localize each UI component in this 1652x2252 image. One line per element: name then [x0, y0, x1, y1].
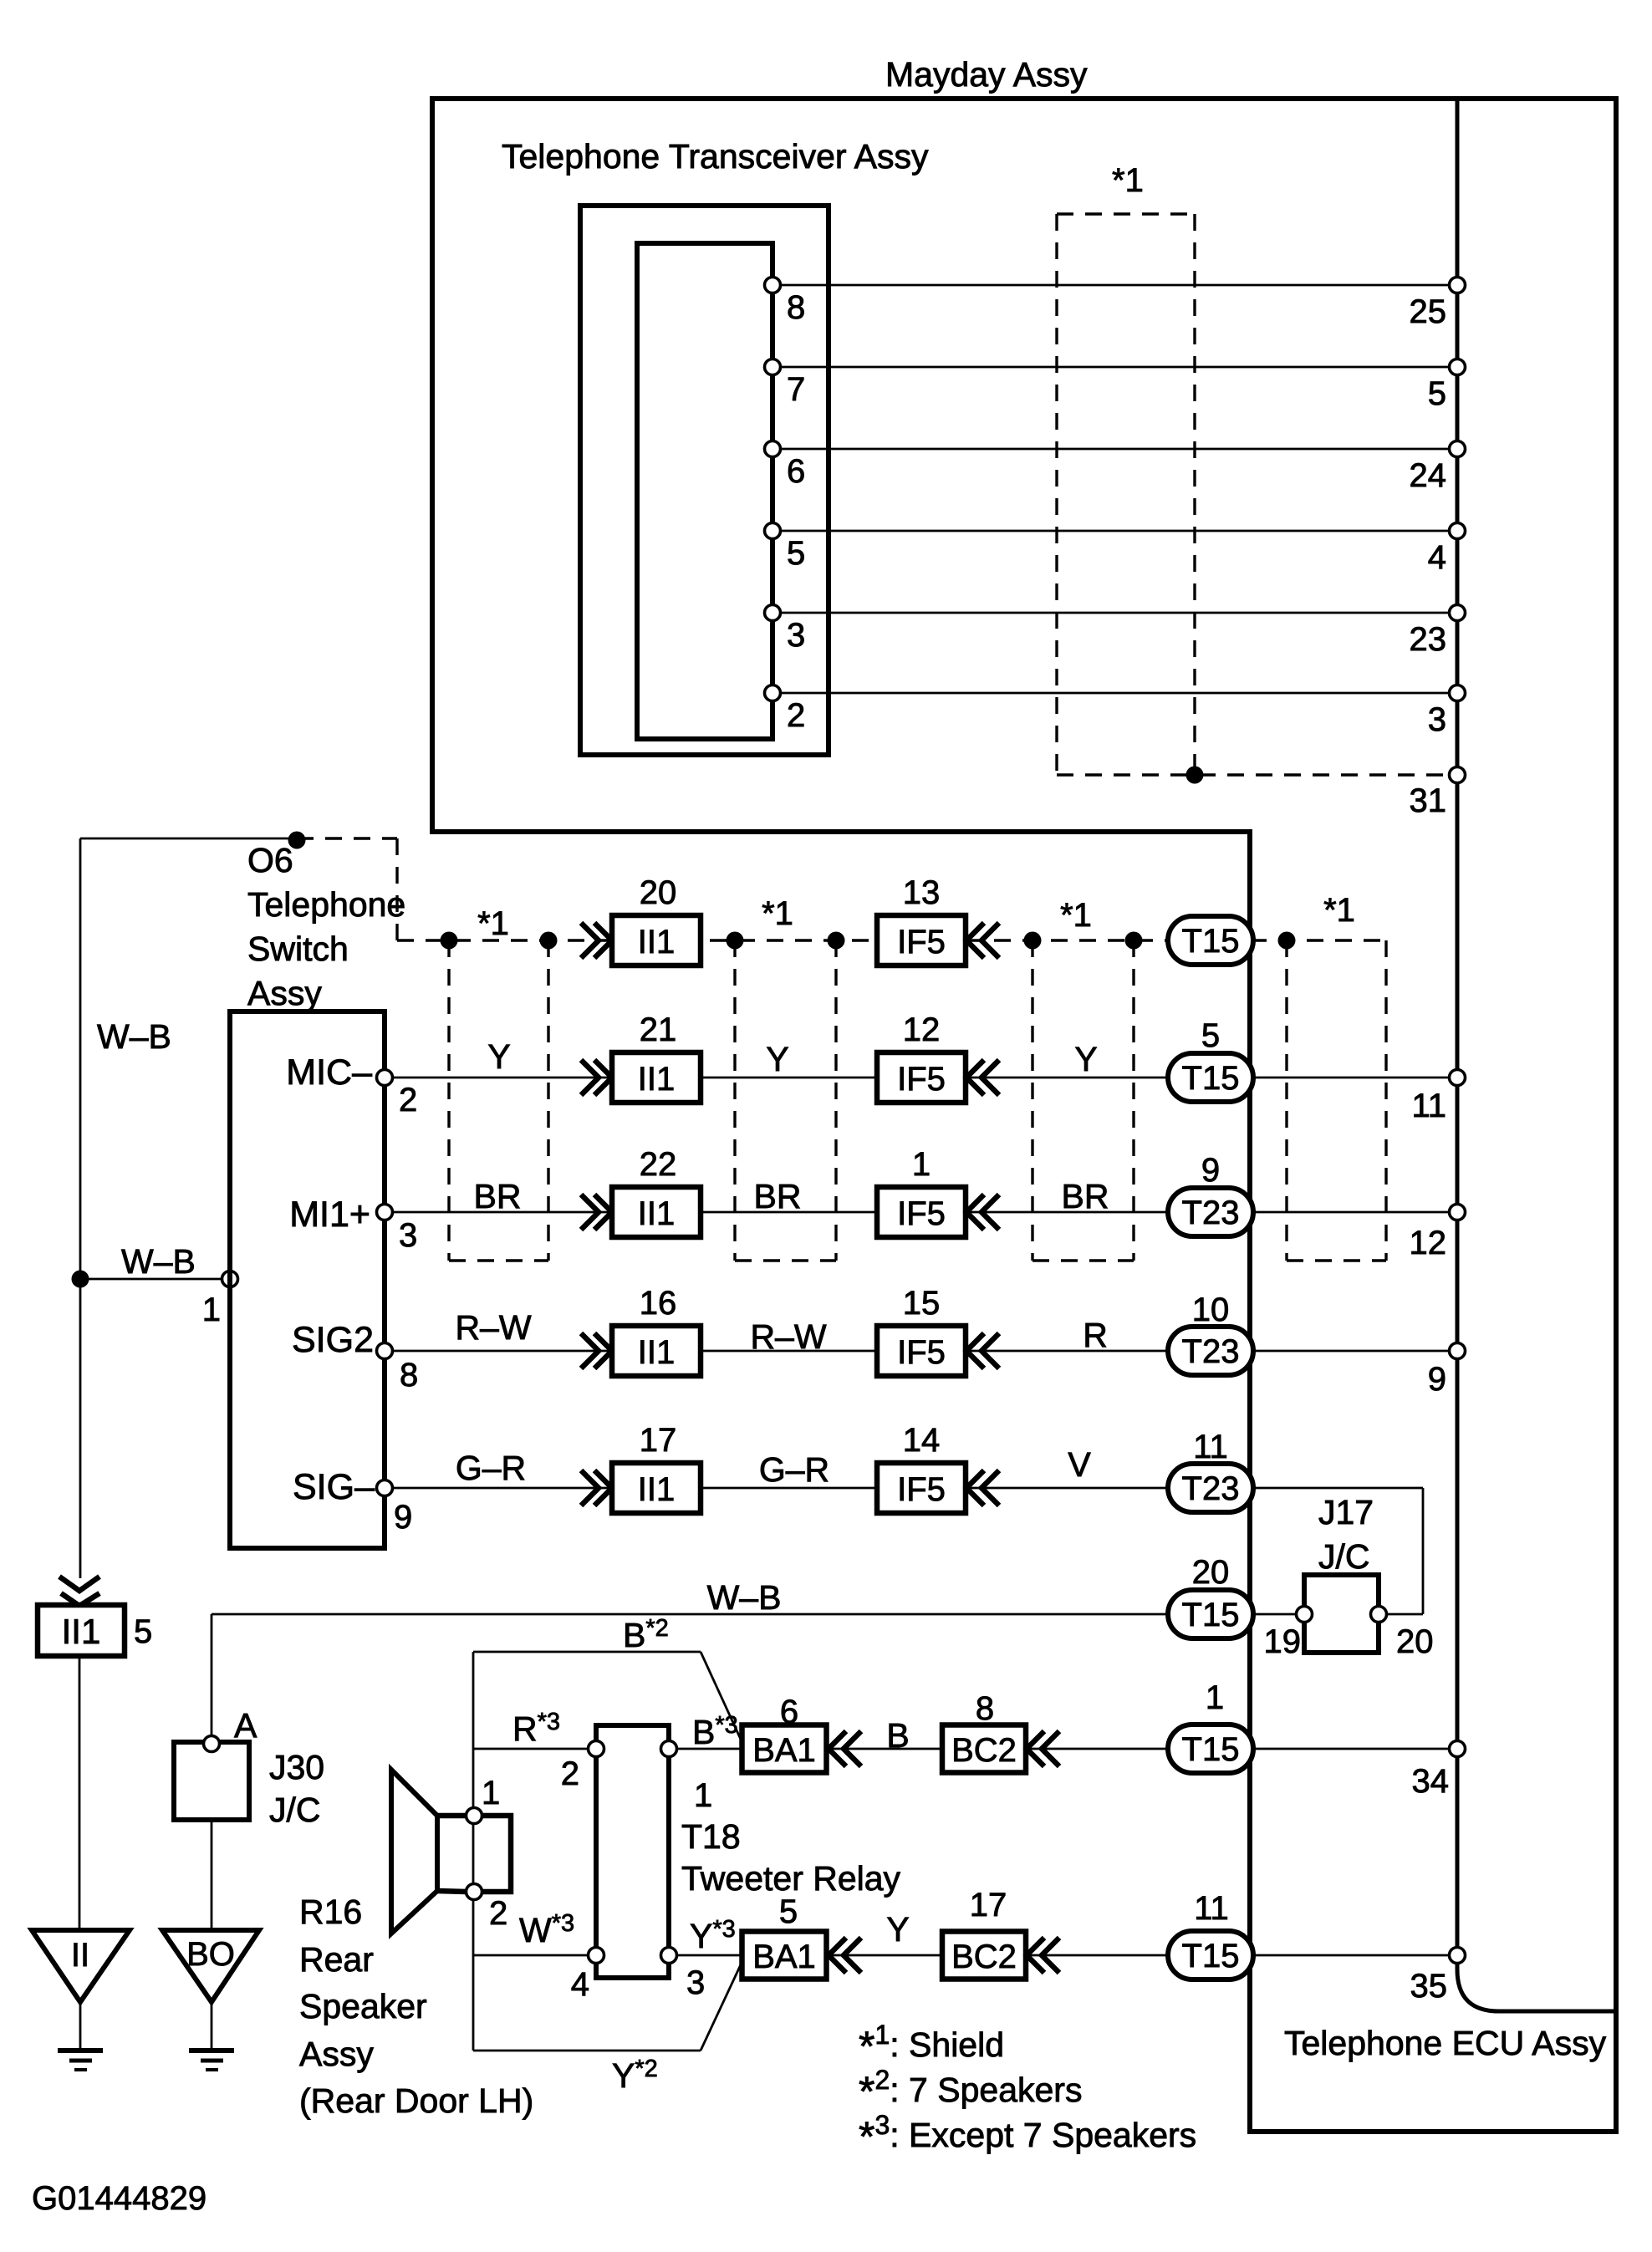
- svg-text:II1: II1: [638, 1195, 675, 1232]
- svg-text:BA1: BA1: [752, 1939, 816, 1975]
- svg-text:*3: Except 7 Speakers: *3: Except 7 Speakers: [859, 2110, 1196, 2160]
- svg-text:5: 5: [779, 1893, 798, 1930]
- svg-text:14: 14: [903, 1422, 941, 1459]
- svg-text:T18: T18: [681, 1817, 741, 1856]
- svg-text:3: 3: [686, 1964, 705, 2001]
- svg-text:G–R: G–R: [759, 1450, 829, 1489]
- svg-text:Y: Y: [1074, 1040, 1097, 1078]
- svg-text:4: 4: [571, 1966, 589, 2003]
- svg-text:17: 17: [970, 1887, 1007, 1923]
- svg-text:Telephone: Telephone: [247, 885, 405, 924]
- svg-text:T23: T23: [1182, 1195, 1240, 1231]
- svg-text:(Rear Door LH): (Rear Door LH): [299, 2081, 533, 2120]
- svg-text:25: 25: [1410, 293, 1447, 330]
- svg-text:3: 3: [1428, 701, 1446, 738]
- svg-text:*1: *1: [1112, 162, 1144, 199]
- svg-text:20: 20: [1192, 1554, 1230, 1591]
- svg-text:34: 34: [1412, 1763, 1450, 1800]
- svg-text:19: 19: [1264, 1623, 1302, 1660]
- svg-text:BR: BR: [1062, 1177, 1109, 1215]
- svg-text:6: 6: [780, 1694, 798, 1730]
- svg-text:BC2: BC2: [951, 1939, 1017, 1975]
- svg-text:O6: O6: [247, 841, 293, 879]
- svg-text:IF5: IF5: [897, 1471, 946, 1508]
- svg-text:MIC–: MIC–: [286, 1052, 372, 1093]
- svg-text:5: 5: [787, 535, 805, 572]
- svg-text:1: 1: [482, 1775, 500, 1811]
- svg-text:1: 1: [202, 1292, 221, 1328]
- svg-text:J/C: J/C: [269, 1791, 321, 1829]
- svg-text:V: V: [1068, 1445, 1091, 1484]
- svg-text:5: 5: [134, 1613, 152, 1650]
- svg-text:Telephone Transceiver Assy: Telephone Transceiver Assy: [502, 137, 929, 176]
- svg-text:20: 20: [640, 874, 677, 911]
- svg-text:II1: II1: [638, 1061, 675, 1098]
- svg-text:5: 5: [1428, 375, 1446, 412]
- svg-text:J17: J17: [1318, 1493, 1374, 1531]
- svg-text:T23: T23: [1182, 1470, 1240, 1507]
- svg-text:12: 12: [903, 1011, 941, 1048]
- svg-text:7: 7: [787, 371, 805, 408]
- svg-text:2: 2: [561, 1755, 579, 1792]
- svg-text:11: 11: [1194, 1890, 1229, 1927]
- svg-text:Y: Y: [886, 1910, 909, 1949]
- svg-text:II1: II1: [638, 1471, 675, 1508]
- svg-text:*1: *1: [1323, 892, 1355, 929]
- svg-text:*2: 7 Speakers: *2: 7 Speakers: [859, 2065, 1082, 2115]
- svg-text:2: 2: [399, 1082, 417, 1118]
- svg-text:J/C: J/C: [1318, 1537, 1370, 1576]
- svg-text:22: 22: [640, 1146, 677, 1183]
- svg-text:9: 9: [1428, 1361, 1446, 1398]
- svg-text:IF5: IF5: [897, 1334, 946, 1371]
- svg-text:2: 2: [787, 697, 805, 734]
- svg-text:9: 9: [1201, 1152, 1220, 1189]
- svg-text:R–W: R–W: [455, 1308, 531, 1347]
- svg-text:Switch: Switch: [247, 930, 349, 968]
- svg-text:SIG–: SIG–: [293, 1467, 375, 1507]
- svg-text:12: 12: [1410, 1225, 1447, 1261]
- svg-text:R–W: R–W: [750, 1317, 826, 1356]
- svg-text:*1: *1: [762, 895, 793, 932]
- svg-text:Assy: Assy: [299, 2035, 374, 2073]
- svg-text:T15: T15: [1182, 1060, 1240, 1097]
- svg-text:G01444829: G01444829: [32, 2180, 206, 2217]
- svg-text:R16: R16: [299, 1893, 362, 1931]
- svg-text:J30: J30: [269, 1748, 324, 1786]
- svg-text:MI1+: MI1+: [289, 1195, 370, 1235]
- svg-text:*1: *1: [477, 905, 509, 942]
- svg-text:*1: *1: [1060, 897, 1092, 934]
- svg-text:BO: BO: [186, 1936, 235, 1973]
- svg-text:II1: II1: [638, 1334, 675, 1371]
- svg-text:24: 24: [1410, 457, 1447, 494]
- svg-text:4: 4: [1428, 539, 1446, 576]
- svg-text:11: 11: [1411, 1088, 1446, 1124]
- svg-text:BA1: BA1: [752, 1732, 816, 1769]
- svg-text:W–B: W–B: [97, 1017, 171, 1056]
- svg-text:13: 13: [903, 874, 941, 911]
- svg-text:A: A: [234, 1706, 257, 1745]
- svg-text:5: 5: [1201, 1017, 1220, 1054]
- svg-text:Y: Y: [487, 1037, 510, 1076]
- svg-text:T15: T15: [1182, 1938, 1240, 1974]
- svg-text:9: 9: [394, 1499, 412, 1536]
- svg-text:3: 3: [399, 1217, 417, 1254]
- svg-text:Rear: Rear: [299, 1940, 374, 1979]
- svg-text:II1: II1: [62, 1612, 101, 1651]
- svg-text:W–B: W–B: [121, 1242, 196, 1281]
- svg-text:1: 1: [694, 1777, 712, 1814]
- svg-text:1: 1: [912, 1146, 931, 1183]
- svg-text:10: 10: [1192, 1292, 1230, 1328]
- svg-text:2: 2: [489, 1895, 507, 1932]
- svg-text:8: 8: [787, 289, 805, 326]
- svg-text:R: R: [1083, 1316, 1108, 1354]
- svg-text:1: 1: [1206, 1679, 1224, 1716]
- svg-text:Y: Y: [766, 1040, 788, 1078]
- svg-text:BR: BR: [754, 1177, 802, 1215]
- svg-text:21: 21: [640, 1011, 677, 1048]
- svg-text:T15: T15: [1182, 1597, 1240, 1633]
- svg-text:SIG2: SIG2: [292, 1320, 374, 1360]
- svg-text:11: 11: [1193, 1429, 1228, 1465]
- svg-text:Tweeter Relay: Tweeter Relay: [681, 1859, 901, 1898]
- svg-text:31: 31: [1410, 782, 1447, 819]
- svg-text:Telephone ECU Assy: Telephone ECU Assy: [1284, 2024, 1607, 2062]
- svg-text:3: 3: [787, 617, 805, 654]
- svg-text:IF5: IF5: [897, 924, 946, 960]
- svg-text:8: 8: [976, 1690, 994, 1727]
- svg-text:8: 8: [400, 1357, 418, 1393]
- svg-text:W–B: W–B: [707, 1578, 782, 1617]
- svg-text:II1: II1: [638, 924, 675, 960]
- svg-text:23: 23: [1410, 621, 1447, 658]
- svg-text:17: 17: [640, 1422, 677, 1459]
- svg-text:20: 20: [1396, 1623, 1434, 1660]
- svg-text:Mayday Assy: Mayday Assy: [885, 55, 1088, 94]
- svg-text:6: 6: [787, 453, 805, 490]
- svg-text:35: 35: [1410, 1968, 1448, 2005]
- svg-text:16: 16: [640, 1285, 677, 1322]
- svg-text:T23: T23: [1182, 1333, 1240, 1370]
- svg-text:IF5: IF5: [897, 1195, 946, 1232]
- svg-text:B: B: [886, 1716, 909, 1755]
- svg-text:Assy: Assy: [247, 974, 322, 1012]
- svg-text:II: II: [71, 1937, 89, 1974]
- svg-text:T15: T15: [1182, 923, 1240, 960]
- svg-text:Speaker: Speaker: [299, 1987, 427, 2025]
- svg-text:15: 15: [903, 1285, 941, 1322]
- svg-text:G–R: G–R: [456, 1449, 526, 1487]
- svg-text:IF5: IF5: [897, 1061, 946, 1098]
- svg-text:T15: T15: [1182, 1731, 1240, 1768]
- svg-text:BC2: BC2: [951, 1732, 1017, 1769]
- svg-text:BR: BR: [474, 1177, 522, 1215]
